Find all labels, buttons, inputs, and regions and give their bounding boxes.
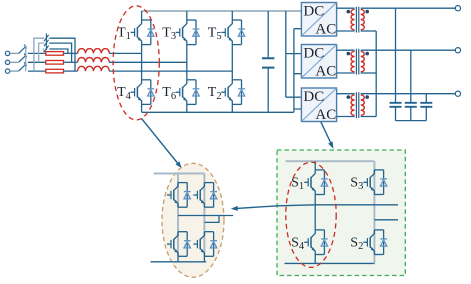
wire phase line to leg (109, 70, 232, 72)
transformer 3 secondary (361, 95, 377, 117)
bypass switch blade phase 3 (44, 35, 49, 41)
wire cell bottom lead (151, 256, 207, 262)
svg-text:DC: DC (303, 89, 324, 105)
input terminal phase 2 (5, 60, 9, 64)
resistor phase 2 (46, 61, 64, 65)
wire right leg rail (373, 161, 375, 263)
node DC- bottom bus (142, 111, 294, 113)
transformer 1 core (356, 7, 358, 33)
breaker coupling link (25, 46, 27, 71)
wire output phase 2 (361, 49, 456, 51)
svg-text:DC: DC (303, 4, 324, 20)
wire phase line to leg (109, 52, 141, 54)
transistor Q1a (167, 183, 187, 208)
transistor Q4b (193, 232, 213, 257)
paralleled-device detail ellipse (162, 163, 224, 277)
wire left leg midpoint output (315, 204, 398, 206)
wire (28, 61, 46, 63)
wire (64, 52, 78, 54)
input terminal phase 1 (5, 51, 9, 55)
bypass coupling link (45, 33, 47, 50)
arrow block3 to H-bridge (321, 122, 332, 146)
transistor T1 (131, 20, 151, 45)
transistor S3 (363, 170, 383, 195)
capacitor output filter 1 (390, 8, 402, 120)
wire (10, 61, 19, 63)
transformer 3 core (356, 92, 358, 118)
wire rail left (177, 174, 179, 257)
wire cell midpoint bus (178, 215, 233, 217)
inductor phase 2 (78, 58, 110, 63)
converter block DC/AC 3 (301, 88, 336, 123)
svg-text:DC: DC (303, 46, 324, 62)
arrow leg zoom (142, 119, 180, 166)
wire DC- feeder (294, 29, 302, 113)
wire DC+ feeder (286, 11, 302, 97)
wire secondary neutral (375, 31, 377, 117)
transformer 2 secondary (361, 51, 377, 73)
output terminal 2 (455, 48, 460, 53)
wire leg 3 (231, 11, 233, 112)
highlight ellipse leg T1/T4 (113, 6, 159, 120)
breaker switch blade phase 3 (19, 62, 27, 71)
wire leg 1 (141, 11, 143, 112)
wire capacitor common bus (396, 120, 427, 122)
wire phase line to leg (109, 61, 187, 63)
inductor phase 3 (78, 66, 110, 71)
capacitor output filter 2 (405, 50, 417, 120)
H-bridge detail box (277, 150, 405, 276)
node H-bridge DC- bus (285, 262, 375, 264)
wire (28, 70, 46, 72)
wire cell top feed (154, 173, 205, 175)
wire (28, 52, 46, 54)
svg-text:AC: AC (315, 107, 336, 123)
output terminal 3 (455, 91, 460, 96)
wire (10, 52, 19, 54)
breaker switch blade phase 1 (19, 45, 27, 54)
transformer 1 secondary (361, 9, 377, 31)
svg-text:AC: AC (315, 63, 336, 79)
resistor phase 3 (46, 69, 64, 73)
wire leg 2 (186, 11, 188, 112)
transistor Q1b (193, 183, 213, 208)
wire (64, 61, 78, 63)
highlight ellipse S1/S4 leg (286, 162, 336, 267)
capacitor DC link (262, 11, 274, 112)
bypass loop phase 1 (43, 49, 46, 53)
wire right leg midpoint output (374, 219, 398, 221)
resistor phase 1 (46, 52, 64, 56)
wire output phase 3 (361, 93, 456, 95)
transformer 1 primary (337, 8, 355, 31)
transformer 2 core (356, 49, 358, 75)
transistor S2 (363, 230, 383, 255)
transformer 3 primary (337, 94, 355, 117)
bypass switch blade phase 1 (44, 46, 49, 52)
wire rail right (203, 174, 205, 257)
transistor T2 (221, 80, 241, 105)
input terminal phase 3 (5, 69, 9, 73)
svg-text:AC: AC (315, 21, 336, 37)
arrow H-bridge leg to paralleled cell (237, 205, 315, 209)
transistor T4 (131, 80, 151, 105)
transistor S1 (304, 170, 324, 195)
transformer 2 primary (337, 50, 355, 73)
output terminal 1 (455, 6, 460, 11)
node H-bridge DC+ bus (286, 160, 375, 162)
transistor S4 (304, 230, 324, 255)
converter block DC/AC 1 (301, 3, 336, 38)
bypass loop phase 2 (39, 43, 44, 62)
transistor T3 (176, 20, 196, 45)
wire left leg (314, 161, 316, 263)
bypass switch blade phase 2 (44, 40, 49, 46)
transistor T6 (176, 80, 196, 105)
breaker switch blade phase 2 (19, 53, 27, 62)
wire (64, 70, 78, 72)
transistor T5 (221, 20, 241, 45)
node DC+ top bus (142, 10, 302, 12)
inductor phase 1 (78, 49, 110, 54)
wire output phase 1 (361, 7, 456, 9)
capacitor output filter 3 (420, 94, 432, 121)
transistor Q4a (167, 232, 187, 257)
converter block DC/AC 2 (301, 45, 336, 80)
wire midpoint step (204, 216, 219, 223)
bypass loop phase 3 (34, 38, 44, 71)
wire (10, 70, 19, 72)
